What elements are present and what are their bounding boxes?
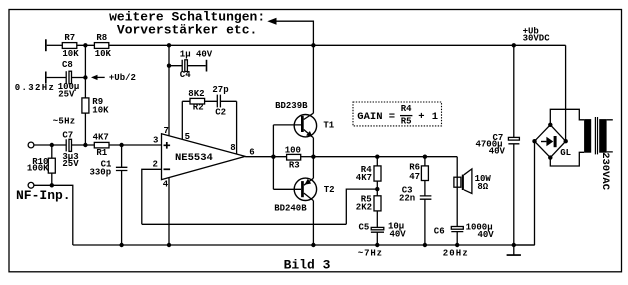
svg-text:BD239B: BD239B	[275, 101, 308, 111]
svg-text:Bild 3: Bild 3	[284, 257, 331, 272]
svg-text:6: 6	[249, 147, 254, 157]
node feedback junction	[375, 187, 379, 191]
transformer TR secondary winding	[584, 119, 591, 153]
svg-text:330p: 330p	[90, 168, 112, 178]
terminal bar right of C4	[206, 60, 208, 72]
input terminal circle lower	[28, 182, 34, 188]
node ground pin4	[167, 243, 171, 247]
wire NF input ground	[34, 185, 73, 245]
svg-text:8: 8	[230, 143, 235, 153]
wire rail down through C8 R9	[84, 45, 86, 145]
node ground C7/bridge	[512, 243, 516, 247]
arrow to preamp note	[267, 18, 276, 25]
node emitters/output	[311, 155, 315, 159]
svg-text:C8: C8	[62, 60, 73, 70]
resistor R8	[94, 43, 108, 49]
node bridge right	[564, 139, 568, 143]
node ground C6	[455, 243, 459, 247]
wire pin 4 to ground	[168, 178, 170, 246]
resistor R6 47	[424, 157, 426, 166]
node pin7/C4	[167, 63, 171, 67]
svg-text:25V: 25V	[62, 159, 79, 169]
node ground C5	[375, 243, 379, 247]
svg-text:Vorverstärker etc.: Vorverstärker etc.	[117, 23, 257, 38]
node C4 branch	[167, 43, 171, 47]
svg-text:10K: 10K	[95, 49, 112, 59]
svg-text:+Ub/2: +Ub/2	[109, 73, 136, 83]
capacitor C3 22n	[420, 181, 432, 246]
capacitor C6 1000µ 40V	[451, 227, 463, 230]
transformer core	[595, 117, 597, 154]
gain formula dotted box	[353, 102, 442, 126]
svg-text:C2: C2	[215, 107, 226, 117]
svg-text:4: 4	[163, 179, 169, 189]
wire pin 8	[236, 101, 238, 154]
svg-text:30VDC: 30VDC	[523, 34, 551, 44]
svg-text:5: 5	[185, 132, 190, 142]
svg-text:GAIN =: GAIN =	[357, 111, 395, 123]
ground rail	[73, 244, 535, 246]
wire R2/C2 top	[182, 100, 236, 102]
node C7/R9/R1 junction	[83, 143, 87, 147]
svg-text:1: 1	[432, 111, 438, 123]
title note "weitere Schaltungen: Vorverstärker etc."	[109, 9, 265, 37]
diode inside bridge	[541, 141, 546, 143]
svg-text:40V: 40V	[390, 230, 407, 240]
input terminal circle upper	[28, 142, 34, 148]
wire pin 5	[181, 101, 183, 139]
svg-text:2K2: 2K2	[356, 203, 372, 213]
svg-text:20Hz: 20Hz	[443, 248, 469, 258]
wire R7 to R8	[77, 44, 95, 46]
svg-text:25V: 25V	[58, 90, 75, 100]
wire T1 T2 base drive	[273, 125, 301, 189]
svg-text:100: 100	[285, 146, 301, 156]
capacitor C1 330p	[116, 145, 128, 245]
node C8 junction	[83, 75, 87, 79]
node ground C1	[119, 243, 123, 247]
svg-text:27p: 27p	[212, 85, 228, 95]
wire R3 to emitters node	[301, 156, 314, 158]
svg-text:100K: 100K	[27, 164, 49, 174]
capacitor C8 100µ 25V	[65, 71, 67, 84]
svg-text:7: 7	[164, 126, 169, 136]
wire output corner to speaker	[456, 157, 458, 227]
wire bridge AC bottom to transformer	[550, 152, 584, 166]
node bridge bottom	[548, 155, 552, 159]
svg-text:40V: 40V	[489, 146, 506, 156]
node R7/R8 junction	[83, 43, 87, 47]
svg-text:T1: T1	[323, 120, 334, 130]
node R10 top	[50, 143, 54, 147]
resistor R9	[82, 98, 89, 113]
resistor R5 2K2	[374, 196, 381, 211]
svg-text:~5Hz: ~5Hz	[53, 116, 76, 126]
wire pin 2	[142, 169, 162, 224]
resistor R10 100K	[51, 145, 53, 185]
capacitor C5 10µ 40V	[376, 211, 378, 228]
resistor R7	[62, 43, 77, 49]
svg-text:C7: C7	[62, 131, 73, 141]
svg-text:NF-Inp.: NF-Inp.	[16, 188, 71, 203]
svg-text:22n: 22n	[399, 194, 415, 204]
svg-text:BD240B: BD240B	[274, 203, 307, 213]
transistor Q2 BD240B	[294, 178, 316, 200]
node C1 branch	[119, 143, 123, 147]
bridge rectifier GL	[535, 125, 566, 158]
wire R1 to op-amp pin 3	[109, 144, 162, 146]
capacitor C4 1µ 40V	[169, 60, 182, 72]
svg-text:0.32Hz: 0.32Hz	[15, 83, 56, 93]
svg-text:8K2: 8K2	[188, 89, 204, 99]
node T1 collector branch	[311, 43, 315, 47]
wire terminal to R7	[47, 44, 63, 46]
capacitor C7 3µ3 25V	[65, 139, 67, 151]
node R4 branch	[375, 155, 379, 159]
op-amp - input sign	[164, 168, 171, 170]
label +Ub 30VDC	[523, 26, 551, 43]
wire terminal to C8	[47, 77, 67, 79]
svg-text:GL: GL	[560, 148, 571, 158]
node R6 branch	[423, 155, 427, 159]
svg-text:10K: 10K	[62, 49, 79, 59]
svg-text:8Ω: 8Ω	[477, 182, 488, 192]
svg-text:R1: R1	[96, 148, 107, 158]
svg-text:R4: R4	[401, 104, 412, 114]
speaker LS 10W 8ohm	[454, 177, 461, 187]
svg-text:C5: C5	[359, 223, 370, 233]
node output/T1 base branch	[271, 155, 275, 159]
wire pin 7 supply	[168, 45, 170, 136]
svg-text:~7Hz: ~7Hz	[358, 248, 383, 258]
wire bridge AC top to transformer	[550, 109, 584, 125]
wire feedback to pin 2	[142, 189, 377, 224]
terminal bar left of C8	[45, 72, 47, 84]
wire op-amp output pin 6	[245, 156, 286, 158]
svg-text:C6: C6	[434, 227, 445, 237]
node +Ub / C7 branch	[512, 43, 516, 47]
svg-text:R6: R6	[409, 162, 420, 172]
fraction bar	[400, 115, 412, 117]
capacitor C2 27p	[217, 95, 220, 108]
svg-text:T2: T2	[324, 185, 335, 195]
svg-text:NE5534: NE5534	[175, 152, 213, 164]
svg-text:2: 2	[153, 160, 158, 170]
transformer primary winding	[599, 119, 606, 153]
wire input to C7	[34, 144, 66, 146]
svg-text:1µ 40V: 1µ 40V	[180, 50, 213, 60]
svg-text:R2: R2	[193, 103, 204, 113]
svg-text:40V: 40V	[478, 230, 495, 240]
op-amp U1 NE5534	[162, 134, 246, 180]
svg-text:R8: R8	[96, 33, 107, 43]
svg-text:230VAC: 230VAC	[599, 152, 611, 191]
op-amp + input sign	[164, 142, 171, 149]
capacitor C7 4700µ 40V	[513, 45, 515, 137]
resistor R3 100	[287, 154, 301, 160]
arrow +Ub/2	[91, 75, 98, 80]
transformer primary leads	[607, 120, 613, 152]
resistor R1 4K7	[94, 142, 109, 148]
node bridge left	[532, 139, 536, 143]
node bridge top	[548, 123, 552, 127]
svg-text:C4: C4	[180, 70, 191, 80]
resistor R4 4K7	[376, 157, 378, 166]
svg-text:3: 3	[153, 135, 158, 145]
node ground T2	[311, 243, 315, 247]
terminal bar left of R7	[45, 39, 47, 51]
node ground C3	[423, 243, 427, 247]
svg-text:R5: R5	[401, 116, 412, 126]
wire R4 to R5	[376, 181, 378, 196]
ground symbol	[513, 245, 515, 255]
svg-text:47: 47	[409, 172, 420, 182]
svg-text:4K7: 4K7	[356, 173, 372, 183]
transistor Q1 BD239B	[294, 115, 316, 137]
wire bridge minus to ground	[514, 141, 535, 245]
svg-text:4K7: 4K7	[93, 133, 109, 143]
svg-text:R3: R3	[289, 160, 300, 170]
wire +Ub down to bridge +	[565, 45, 567, 141]
wire arrow to +Ub rail	[276, 21, 313, 45]
svg-text:R7: R7	[64, 33, 75, 43]
wire output rail to speaker corner	[313, 156, 457, 158]
wire +Ub rail	[109, 44, 566, 46]
resistor R2 8K2	[190, 98, 205, 104]
svg-text:+: +	[418, 111, 424, 123]
svg-text:10K: 10K	[92, 105, 109, 115]
node R10 bottom	[50, 183, 54, 187]
